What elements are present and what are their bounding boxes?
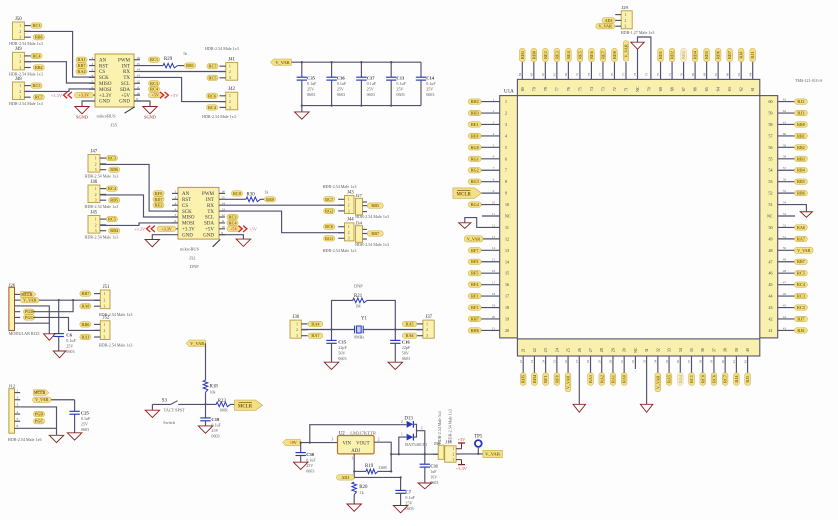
svg-text:SCK: SCK [99,76,109,81]
ground cap bank [301,106,303,112]
svg-text:3: 3 [104,305,106,309]
svg-text:RJ4: RJ4 [734,376,739,383]
svg-text:J43: J43 [347,190,354,195]
svg-text:RC1: RC1 [689,375,694,383]
svg-text:8: 8 [505,179,507,184]
U1A left pin 4 wire 4 [468,132,507,139]
svg-text:76: 76 [566,87,571,91]
svg-text:J48: J48 [15,77,22,82]
label ADJ on J29.2 [602,18,615,23]
svg-text:2: 2 [19,60,21,64]
svg-text:56: 56 [783,178,787,182]
svg-text:6: 6 [175,219,177,223]
slash mark J52 [213,239,221,246]
wire PGD to J51.2 [33,300,73,312]
label RF0 on J52 AN [153,191,164,196]
svg-text:79: 79 [576,73,580,77]
svg-text:78: 78 [587,73,591,77]
svg-text:3: 3 [426,334,428,338]
svg-text:ADJ: ADJ [351,449,360,454]
svg-text:0603: 0603 [337,92,345,97]
ground J26 pins 3 and 6 [20,306,49,334]
svg-text:RF3: RF3 [471,294,479,299]
capacitor C15 22pF [326,330,347,363]
svg-text:+5V: +5V [152,93,159,98]
svg-text:44: 44 [783,315,787,319]
svg-text:2: 2 [493,109,495,113]
svg-text:32: 32 [631,360,635,364]
svg-text:1: 1 [625,13,627,17]
svg-text:27: 27 [588,348,593,352]
svg-text:J45: J45 [91,210,98,215]
svg-text:RC3: RC3 [108,156,116,161]
svg-text:RG2: RG2 [325,208,333,213]
wire J49.2 to J35 MISO [24,62,95,83]
svg-text:J34: J34 [356,221,363,226]
svg-text:HDR-1.27 Male 1x3: HDR-1.27 Male 1x3 [621,30,655,35]
svg-text:AN: AN [182,192,190,197]
U1A bottom pin 23 wire 24 [541,348,548,385]
svg-text:J51: J51 [103,285,110,290]
svg-text:RD3: RD3 [681,51,686,59]
svg-text:+3.3V: +3.3V [182,228,195,233]
wire J48.2 to J35 MOSI [24,89,95,92]
svg-text:RA0: RA0 [622,375,627,383]
svg-text:61: 61 [783,120,787,124]
svg-text:RC5: RC5 [32,83,40,88]
svg-text:J41: J41 [228,57,235,62]
svg-text:0603: 0603 [402,356,410,361]
svg-text:0603: 0603 [66,349,74,354]
U1A right pin NC wire 53 [767,212,795,219]
svg-text:30: 30 [622,348,627,352]
U1A left pin 15 wire 16 [468,269,509,276]
svg-text:2: 2 [104,299,106,303]
svg-text:RC7: RC7 [325,197,333,202]
svg-text:mikroBUS: mikroBUS [97,113,117,118]
svg-text:57: 57 [783,166,787,170]
svg-text:28: 28 [599,348,604,352]
svg-text:60: 60 [769,99,773,104]
svg-text:RC1: RC1 [150,57,158,62]
svg-text:1: 1 [493,98,495,102]
svg-text:RB1: RB1 [797,133,805,138]
svg-text:18: 18 [505,305,509,310]
wire J35 TX to J42.2 [140,77,226,101]
svg-text:RC4: RC4 [108,186,116,191]
svg-text:RB5: RB5 [797,179,805,184]
svg-text:6: 6 [493,155,495,159]
svg-text:0.1uF: 0.1uF [81,416,91,421]
svg-text:CS: CS [99,70,105,75]
svg-text:49: 49 [783,258,787,262]
svg-text:71: 71 [623,87,628,91]
wire V_VAR rail top [292,61,422,63]
svg-text:RB6: RB6 [82,322,90,327]
label ADJ [337,475,355,480]
svg-text:25: 25 [566,348,571,352]
U1A right pin 49 wire 51 [769,235,808,242]
U1A left pin 10 wire 10 [468,200,509,207]
ground under C30 [293,462,308,469]
svg-text:V_VAR: V_VAR [190,341,205,346]
svg-text:35: 35 [665,360,669,364]
svg-text:0603: 0603 [426,92,434,97]
svg-text:R19: R19 [365,464,374,469]
svg-text:TX: TX [123,76,130,81]
label RE2 on J52 CS [153,203,164,208]
svg-text:S3: S3 [162,398,168,403]
crystal Y1 8MHz [301,316,423,339]
U1A left pin 7 wire 7 [468,166,507,173]
svg-text:2: 2 [348,204,350,208]
svg-text:5: 5 [175,213,177,217]
svg-text:59: 59 [783,143,787,147]
label RC1 on J35 PWM [149,57,160,62]
svg-text:69: 69 [658,87,663,91]
svg-text:0.1uF: 0.1uF [211,423,221,428]
svg-text:16: 16 [505,282,509,287]
svg-text:RST: RST [99,64,108,69]
svg-text:RE5: RE5 [577,51,582,59]
U1A top pin 66 wire 69 [691,48,698,91]
svg-text:ADJ: ADJ [341,475,349,480]
U1A left pin 1 wire 1 [468,98,507,105]
connector J48 HDR-2.54 Male 1x3 [9,77,44,106]
label RC3 on J52 SCL [227,214,238,219]
svg-text:2: 2 [19,30,21,34]
svg-text:RC3: RC3 [229,214,237,219]
label PGD on J12.4 [34,411,45,416]
U1A bottom pin 40 wire 42 [743,348,750,385]
U1A top pin NC wire 74 [631,37,651,92]
net label V_VAR cap bank [271,59,292,65]
U1A left pin 14 wire 15 [468,258,509,265]
svg-text:RA6: RA6 [406,333,414,338]
svg-text:74: 74 [589,87,594,91]
power input +9V flag [283,439,301,445]
U1A right pin 46 wire 48 [769,269,808,276]
svg-text:C25: C25 [81,410,90,415]
svg-text:RE6: RE6 [589,51,594,59]
svg-text:4: 4 [92,74,94,78]
label RB0 [265,197,276,202]
U1A left pin 12 wire 13 [464,235,509,242]
svg-text:MCLR: MCLR [238,405,253,410]
svg-text:14: 14 [136,68,140,72]
svg-text:MODULAR RJ25: MODULAR RJ25 [9,331,40,336]
svg-text:RB7: RB7 [371,231,379,236]
svg-text:3: 3 [296,334,298,338]
svg-text:0.1uF: 0.1uF [396,81,406,86]
svg-text:RC3: RC3 [150,81,158,86]
IC U1A TMS-121-01 body [500,78,823,356]
svg-text:MCLR: MCLR [457,193,472,198]
svg-text:3: 3 [332,437,334,441]
U1A right pin 42 wire 44 [769,315,808,322]
wire cap bank bottom rail [302,105,421,107]
svg-text:39: 39 [710,360,714,364]
U1A bottom pin 29 wire 30 [609,348,616,385]
label RC0 on J52 PWM [232,191,243,196]
U1A bottom pin 34 wire 36 [676,348,683,385]
svg-text:PWM: PWM [118,58,131,63]
svg-text:+5V: +5V [121,94,130,99]
svg-text:100R: 100R [219,408,228,412]
svg-text:RD0: RD0 [612,51,617,59]
svg-text:78: 78 [543,87,548,91]
svg-text:4: 4 [505,133,507,138]
svg-text:PGD: PGD [35,412,44,417]
svg-text:4: 4 [493,132,495,136]
svg-text:0.1uF: 0.1uF [307,81,317,86]
U1A bottom pin 36 wire 38 [698,348,705,385]
svg-text:58: 58 [783,155,787,159]
U1A left pin 17 wire 18 [468,292,509,299]
svg-text:0.1uF: 0.1uF [367,81,377,86]
svg-text:DNP: DNP [354,284,363,289]
svg-text:RF6: RF6 [471,259,479,264]
U1A left pin 19 wire 20 [468,315,509,322]
svg-text:3: 3 [625,25,627,29]
svg-text:3: 3 [95,229,97,233]
svg-text:45: 45 [783,303,787,307]
svg-text:2: 2 [175,196,177,200]
ground right of J52 [219,235,243,239]
svg-text:MCLR: MCLR [21,293,33,297]
U1A top pin 78 wire 82 [541,48,548,91]
svg-text:2: 2 [229,70,231,74]
svg-text:52: 52 [769,191,773,196]
svg-text:71: 71 [668,73,672,77]
svg-text:25V: 25V [306,463,313,468]
svg-text:TMS-121-01G-S: TMS-121-01G-S [795,78,822,83]
svg-text:RC4: RC4 [150,87,158,92]
svg-text:1: 1 [175,190,177,194]
svg-text:54: 54 [783,200,787,204]
ground under C6 [53,351,66,358]
svg-text:RC0: RC0 [233,191,241,196]
U1A left pin NC wire 11 [482,212,511,219]
svg-text:C35: C35 [307,75,316,80]
svg-text:J52: J52 [103,316,110,321]
ground under R20 [347,504,362,511]
connector J36 HDR-2.54 Male 1x3 [290,315,323,339]
svg-text:RC7: RC7 [35,95,43,100]
U1A left pin 8 wire 8 [468,178,507,185]
svg-text:RJ3: RJ3 [797,110,804,115]
svg-text:61: 61 [750,87,755,91]
label PGC on J12.5 [34,419,45,424]
svg-text:RB7: RB7 [82,291,90,296]
svg-text:RE1: RE1 [471,122,479,127]
svg-text:67: 67 [714,73,718,77]
svg-text:25V: 25V [81,422,88,427]
svg-text:59: 59 [769,111,773,116]
label RD7 on J52 RST [153,197,164,202]
svg-text:9: 9 [505,191,507,196]
label PGC on J26.5 [24,315,35,320]
svg-text:RF2: RF2 [471,305,479,310]
diode D13 BAT54SLT1 [399,416,428,454]
svg-text:3: 3 [229,106,231,110]
U1A bottom pin 32 wire 34 [654,348,661,392]
svg-text:57: 57 [769,133,773,138]
svg-text:NC: NC [505,214,511,219]
U1A top pin 80 wire 84 [518,48,525,91]
svg-text:J44: J44 [347,218,354,223]
svg-text:RC2: RC2 [797,305,805,310]
svg-text:2: 2 [453,452,455,456]
svg-text:63: 63 [783,98,787,102]
U1A top pin 76 wire 80 [564,48,571,91]
svg-text:16: 16 [136,56,140,60]
svg-text:37: 37 [711,348,716,352]
svg-text:RJ7: RJ7 [797,316,804,321]
svg-text:RA5: RA5 [667,375,672,383]
svg-text:3: 3 [348,237,350,241]
U1A left pin 11 wire 12 [459,218,509,230]
svg-text:3: 3 [505,122,507,127]
svg-text:1: 1 [348,198,350,202]
svg-text:21: 21 [521,348,526,352]
svg-text:J12: J12 [9,383,16,388]
svg-text:22pF: 22pF [338,345,347,350]
svg-text:SCL: SCL [205,216,214,221]
capacitor C25 0.1uF [69,400,91,433]
svg-text:73: 73 [600,87,605,91]
svg-text:VIN: VIN [343,442,352,447]
resistor R18 10k [203,380,218,404]
svg-text:11: 11 [505,225,509,230]
svg-text:V_VAR: V_VAR [23,298,36,303]
svg-text:HDR-2.54 Male 1x3: HDR-2.54 Male 1x3 [323,248,357,253]
svg-text:12: 12 [505,236,509,241]
ground under C16 [388,362,403,369]
svg-text:HDR-2.54 Male 1x3: HDR-2.54 Male 1x3 [99,343,133,348]
svg-text:31: 31 [644,348,649,352]
U1A right pin 58 wire 61 [769,120,808,127]
svg-text:38: 38 [698,360,702,364]
svg-text:VOUT: VOUT [356,442,369,447]
svg-text:V_VAR: V_VAR [485,452,501,457]
svg-text:2: 2 [19,90,21,94]
svg-text:RA7: RA7 [797,236,805,241]
svg-text:1k: 1k [183,52,187,56]
svg-text:TX: TX [207,210,214,215]
svg-text:RG0: RG0 [471,145,479,150]
switch S3 TACT SPST [152,398,205,425]
svg-text:HDR-2.54 Male 1x3: HDR-2.54 Male 1x3 [85,174,119,179]
svg-text:5: 5 [493,143,495,147]
svg-text:U1A: U1A [504,90,514,95]
svg-text:20: 20 [492,315,496,319]
U1A left pin 13 wire 14 [468,246,509,253]
svg-text:17: 17 [505,294,509,299]
svg-text:GND: GND [99,100,110,105]
svg-text:50V: 50V [338,351,345,356]
svg-text:RB0: RB0 [266,197,274,202]
connector J49 HDR-2.54 Male 1x3 [9,47,44,76]
wire J35 RX to J41.2 [140,71,226,73]
U1A right pin 48 wire 50 [769,246,814,253]
svg-text:30: 30 [609,360,613,364]
U1A bottom pin 31 wire 33 [640,348,653,412]
svg-text:50V: 50V [402,351,409,356]
svg-text:11: 11 [136,85,140,89]
svg-text:RA4: RA4 [678,375,683,383]
svg-text:34: 34 [654,360,658,364]
U1A top pin 71 wire 75 [622,41,629,91]
svg-text:10: 10 [221,225,225,229]
svg-text:HDR-2.54 Male 1x3: HDR-2.54 Male 1x3 [9,101,43,106]
U1A right pin 50 wire 52 [769,223,808,230]
wire V_VAR to C25 [51,399,75,401]
regulator U2 LM317KTTR [332,430,380,460]
svg-text:J27: J27 [356,193,363,198]
svg-text:69: 69 [691,73,695,77]
svg-text:73: 73 [645,73,649,77]
svg-text:2: 2 [229,100,231,104]
svg-text:330R: 330R [378,466,387,470]
svg-text:RF0: RF0 [155,191,163,196]
resistor R21 1M DNP [332,284,396,330]
svg-text:HDR-2.54 Male 1x6: HDR-2.54 Male 1x6 [8,437,42,442]
svg-text:1: 1 [95,157,97,161]
svg-text:10: 10 [505,202,509,207]
svg-text:0.1uF: 0.1uF [405,495,415,500]
connector J34 HDR-1.27 Male 1x3 [355,221,389,248]
svg-text:RF4: RF4 [471,282,479,287]
svg-text:HDR-2.54 Male 1x1: HDR-2.54 Male 1x1 [437,411,442,444]
svg-text:0.1uF: 0.1uF [306,457,316,462]
svg-text:BAT54SLT1: BAT54SLT1 [405,442,427,447]
U1A right pin 60 wire 63 [769,98,808,105]
U1A right pin 57 wire 60 [769,132,808,139]
svg-text:40: 40 [721,360,725,364]
svg-text:RF5: RF5 [471,271,479,276]
wire ADJ row to C7 [354,476,400,478]
svg-text:3: 3 [17,403,19,407]
ground under C18 [198,426,213,433]
svg-text:42: 42 [743,360,747,364]
svg-text:RD4: RD4 [693,51,698,59]
label V_VAR on J12.2 [33,397,52,402]
power +3.3V bar at J14.3 [456,460,468,471]
svg-text:J29: J29 [622,5,629,10]
ground J12 pins 3 and 6 [20,407,56,435]
label PGD on J26.4 [24,309,35,314]
svg-text:RX: RX [207,204,214,209]
svg-text:56: 56 [769,145,773,150]
capacitor C14 0.1uF [416,62,437,105]
svg-text:5: 5 [92,80,94,84]
svg-text:25V: 25V [426,86,433,91]
svg-text:1k: 1k [360,491,364,495]
svg-text:76: 76 [610,73,614,77]
svg-text:29: 29 [610,348,615,352]
label V_VAR on J29.3 [596,24,615,29]
svg-text:ADJ: ADJ [605,18,613,23]
svg-text:HDR-2.54 Male 1x3: HDR-2.54 Male 1x3 [355,242,389,247]
svg-text:1: 1 [229,94,231,98]
svg-text:79: 79 [531,87,536,91]
svg-text:0603: 0603 [211,434,219,439]
U1A bottom pin 25 wire 26 [564,348,571,392]
svg-text:RH4: RH4 [532,375,537,383]
label RA4 on J35 CS [76,69,87,74]
connector J41 HDR-2.54 Male 1x3 [205,46,239,81]
